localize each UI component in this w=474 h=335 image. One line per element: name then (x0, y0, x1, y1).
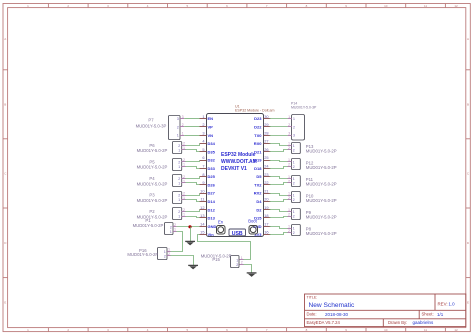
svg-text:1.0: 1.0 (449, 302, 456, 307)
svg-text:2: 2 (293, 181, 295, 185)
svg-text:12: 12 (454, 328, 458, 332)
svg-text:21: 21 (264, 188, 268, 193)
svg-text:2: 2 (288, 196, 290, 200)
wire U1 pin 30 to P14 pin 1 (270, 118, 288, 120)
connector P7 (136, 115, 185, 140)
svg-text:2: 2 (170, 225, 172, 229)
svg-text:3: 3 (202, 130, 204, 135)
svg-text:12: 12 (454, 4, 458, 8)
svg-text:MUD01Y-5.0-2P: MUD01Y-5.0-2P (137, 181, 168, 186)
svg-text:2: 2 (293, 198, 295, 202)
ESP32 module U1 (200, 114, 271, 238)
connector P6 (137, 142, 186, 154)
svg-text:MUD01Y-5.0-2P: MUD01Y-5.0-2P (306, 148, 337, 153)
svg-text:1: 1 (293, 177, 295, 181)
svg-text:MUD01Y-5.0-2P: MUD01Y-5.0-2P (127, 252, 158, 257)
wire P6 pin 1 to U1 pin 5 (186, 150, 200, 152)
svg-text:EN: EN (208, 116, 214, 121)
svg-text:2: 2 (183, 158, 185, 162)
svg-text:Drawn By:: Drawn By: (388, 320, 407, 325)
svg-text:2018-08-30: 2018-08-30 (325, 312, 349, 317)
wire U1 Vin pin 15 to P15 pin 1 (198, 235, 251, 260)
connector P8 (287, 224, 336, 236)
wire U1 pin 17 to P8 pin 1 (270, 227, 288, 229)
svg-text:1: 1 (164, 250, 166, 254)
wire U1 pin 18 to P9 pin 2 (270, 217, 288, 218)
svg-text:1: 1 (288, 175, 290, 179)
ground symbol 3 (247, 273, 257, 277)
svg-text:2: 2 (178, 194, 180, 198)
connector P5 (137, 158, 186, 170)
svg-text:3V3: 3V3 (254, 232, 262, 237)
svg-text:2: 2 (288, 123, 290, 127)
svg-text:1: 1 (293, 210, 295, 214)
svg-text:MUD01Y-5.0-2P: MUD01Y-5.0-2P (306, 215, 337, 220)
svg-text:D18: D18 (254, 166, 262, 171)
svg-text:EasyEDA V5.7.24: EasyEDA V5.7.24 (307, 320, 341, 325)
svg-text:2: 2 (293, 148, 295, 152)
svg-text:1: 1 (293, 227, 295, 231)
svg-text:2: 2 (177, 125, 179, 129)
svg-text:11: 11 (424, 4, 427, 8)
svg-text:3: 3 (293, 134, 295, 138)
svg-text:Vin: Vin (208, 232, 215, 237)
svg-text:19: 19 (264, 205, 268, 210)
wire P7 pin 1 to U1 pin 3 (184, 135, 199, 137)
svg-text:15: 15 (200, 230, 204, 235)
wire P3 pin 1 to U1 pin 11 (186, 200, 200, 202)
svg-text:1: 1 (178, 165, 180, 169)
svg-text:2: 2 (236, 263, 238, 267)
svg-text:E: E (467, 301, 469, 305)
svg-text:27: 27 (264, 139, 268, 144)
svg-text:1: 1 (177, 134, 179, 138)
svg-text:1: 1 (236, 258, 238, 262)
svg-text:2: 2 (293, 231, 295, 235)
svg-text:10: 10 (384, 328, 388, 332)
EN button (217, 219, 226, 234)
svg-text:A: A (4, 37, 6, 41)
svg-text:MUD01Y-5.0-2P: MUD01Y-5.0-2P (306, 165, 337, 170)
wire P4 pin 1 to U1 pin 9 (186, 183, 200, 185)
svg-text:7: 7 (202, 163, 204, 168)
wire U1 pin 16 to P8 pin 2 (270, 233, 288, 235)
svg-text:USB: USB (232, 231, 243, 237)
svg-text:1: 1 (293, 194, 295, 198)
svg-text:3: 3 (177, 117, 179, 121)
svg-text:2: 2 (293, 215, 295, 219)
svg-text:1: 1 (174, 228, 176, 232)
svg-text:22: 22 (264, 180, 268, 185)
wire U1 pin 23 to P11 pin 1 (270, 177, 288, 179)
svg-text:2: 2 (178, 210, 180, 214)
svg-text:P7: P7 (148, 118, 154, 123)
wire P16 pin 2 to ground (171, 256, 194, 266)
svg-text:1: 1 (178, 148, 180, 152)
ground symbol 2 (188, 265, 198, 269)
svg-text:MUD01Y-5.0-3P: MUD01Y-5.0-3P (291, 105, 317, 109)
svg-text:1: 1 (183, 179, 185, 183)
svg-text:D12: D12 (208, 207, 216, 212)
connector P12 (287, 158, 336, 170)
svg-text:3: 3 (288, 131, 290, 135)
svg-text:1: 1 (170, 230, 172, 234)
svg-text:2: 2 (178, 160, 180, 164)
svg-text:16: 16 (264, 230, 268, 235)
svg-text:1: 1 (288, 115, 290, 119)
svg-text:D32: D32 (208, 158, 216, 163)
svg-text:2: 2 (164, 254, 166, 258)
svg-text:D4: D4 (256, 199, 262, 204)
Boot button (248, 219, 257, 234)
svg-text:1: 1 (288, 142, 290, 146)
svg-text:11: 11 (200, 197, 204, 202)
svg-text:1: 1 (178, 215, 180, 219)
wire P2 pin 2 to U1 pin 12 (186, 210, 200, 212)
svg-text:23: 23 (264, 172, 268, 177)
wire junction down to ground (190, 227, 192, 241)
wire U1 pin 24 to P12 pin 2 (270, 167, 288, 169)
ground symbol 1 (185, 241, 195, 245)
svg-text:2: 2 (288, 179, 290, 183)
connector P13 (287, 142, 336, 154)
svg-text:D22: D22 (254, 124, 262, 129)
svg-text:1: 1 (183, 146, 185, 150)
connector P3 (137, 191, 186, 203)
svg-text:New Schematic: New Schematic (309, 302, 356, 309)
wire P6 pin 2 to U1 pin 4 (186, 144, 200, 146)
connector P14 (288, 102, 317, 140)
svg-text:29: 29 (264, 122, 268, 127)
svg-text:D14: D14 (208, 199, 216, 204)
svg-text:10: 10 (384, 4, 388, 8)
USB connector graphic (229, 229, 246, 237)
svg-text:13: 13 (200, 213, 204, 218)
wire U1 pin 21 to P10 pin 1 (270, 194, 288, 196)
svg-text:9: 9 (202, 180, 204, 185)
connector P4 (137, 175, 186, 187)
svg-text:2: 2 (288, 163, 290, 167)
svg-text:MUD01Y-5.0-2P: MUD01Y-5.0-2P (137, 165, 168, 170)
svg-text:2: 2 (293, 125, 295, 129)
svg-text:TITLE:: TITLE: (307, 296, 318, 300)
junction on GND net (188, 225, 191, 228)
wire U1 pin 28 to P14 pin 3 (270, 135, 288, 137)
svg-text:P15: P15 (212, 257, 220, 262)
svg-text:ESP32 Module: ESP32 Module (221, 152, 256, 158)
wire U1 pin 27 to P13 pin 1 (270, 144, 288, 146)
svg-text:1: 1 (288, 208, 290, 212)
svg-text:1: 1 (183, 163, 185, 167)
svg-text:1: 1 (288, 191, 290, 195)
wire P1 pin 2 to U1 GND pin 14 (177, 226, 200, 228)
svg-text:2: 2 (202, 122, 204, 127)
svg-text:6: 6 (202, 155, 204, 160)
wire P2 pin 1 to U1 pin 13 (186, 217, 200, 218)
svg-text:gaabrielns: gaabrielns (413, 320, 435, 325)
svg-text:1: 1 (202, 114, 204, 119)
svg-text:28: 28 (264, 130, 268, 135)
wire P5 pin 1 to U1 pin 7 (186, 167, 200, 169)
svg-text:26: 26 (264, 147, 268, 152)
wire U1 pin 25 to P12 pin 1 (270, 161, 288, 162)
svg-text:DEVKIT V1: DEVKIT V1 (221, 166, 247, 172)
svg-text:2: 2 (178, 177, 180, 181)
wire P5 pin 2 to U1 pin 6 (186, 161, 200, 162)
svg-text:D35: D35 (208, 149, 216, 154)
svg-text:1: 1 (178, 181, 180, 185)
svg-text:1: 1 (288, 224, 290, 228)
connector P9 (287, 208, 336, 220)
svg-text:2: 2 (183, 142, 185, 146)
svg-text:3: 3 (182, 115, 184, 119)
svg-text:B: B (4, 102, 6, 106)
connector P15 (201, 254, 244, 268)
svg-text:11: 11 (424, 328, 427, 332)
svg-text:REV:: REV: (438, 302, 448, 307)
svg-text:MUD01Y-5.0-2P: MUD01Y-5.0-2P (133, 223, 164, 228)
svg-text:1: 1 (183, 196, 185, 200)
svg-text:RX2: RX2 (254, 191, 263, 196)
svg-text:MUD01Y-5.0-2P: MUD01Y-5.0-2P (306, 198, 337, 203)
svg-text:5: 5 (202, 147, 204, 152)
svg-text:MUD01Y-5.0-2P: MUD01Y-5.0-2P (306, 181, 337, 186)
connector P10 (287, 191, 336, 203)
svg-text:2: 2 (293, 165, 295, 169)
svg-text:D33: D33 (208, 166, 216, 171)
connector P2 (137, 208, 186, 220)
svg-text:WWW.DOIT.AM: WWW.DOIT.AM (221, 159, 257, 165)
svg-text:12: 12 (200, 205, 204, 210)
svg-text:8: 8 (202, 172, 204, 177)
svg-text:VP: VP (208, 124, 214, 129)
connector P11 (287, 175, 336, 187)
svg-text:2: 2 (183, 191, 185, 195)
svg-text:1: 1 (178, 198, 180, 202)
connector P16 (127, 248, 170, 260)
svg-text:MUD01Y-5.0-2P: MUD01Y-5.0-2P (137, 214, 168, 219)
svg-text:2: 2 (174, 223, 176, 227)
wire U1 pin 20 to P10 pin 2 (270, 200, 288, 202)
svg-text:1: 1 (293, 117, 295, 121)
svg-text:2: 2 (182, 123, 184, 127)
svg-text:2: 2 (288, 146, 290, 150)
svg-text:2: 2 (183, 208, 185, 212)
svg-text:RX0: RX0 (254, 141, 263, 146)
svg-text:2: 2 (288, 212, 290, 216)
svg-text:E: E (4, 301, 6, 305)
svg-text:ESP32 Module - Doit.am: ESP32 Module - Doit.am (235, 108, 275, 112)
svg-text:2: 2 (183, 175, 185, 179)
wire U1 pin 29 to P14 pin 2 (270, 126, 288, 128)
wire P7 pin 3 to U1 pin 1 (184, 118, 199, 120)
svg-text:1: 1 (241, 256, 243, 260)
svg-text:17: 17 (264, 221, 268, 226)
svg-text:TX2: TX2 (254, 182, 262, 187)
svg-text:B: B (467, 102, 469, 106)
wire P7 pin 2 to U1 pin 2 (184, 126, 199, 128)
svg-text:1: 1 (168, 248, 170, 252)
svg-text:2: 2 (168, 252, 170, 256)
wire U1 pin 19 to P9 pin 1 (270, 210, 288, 212)
svg-text:1: 1 (293, 160, 295, 164)
svg-text:2: 2 (178, 144, 180, 148)
svg-text:1/1: 1/1 (437, 312, 444, 317)
svg-text:D23: D23 (254, 116, 262, 121)
svg-text:2: 2 (241, 261, 243, 265)
svg-text:2: 2 (288, 229, 290, 233)
wire U1 pin 26 to P13 pin 2 (270, 150, 288, 152)
svg-text:D27: D27 (208, 191, 216, 196)
svg-text:Boot: Boot (248, 219, 257, 224)
svg-text:VN: VN (208, 133, 214, 138)
svg-text:1: 1 (182, 131, 184, 135)
connector P1 (133, 218, 177, 235)
wire P15 pin 2 to ground (244, 265, 252, 273)
svg-text:D26: D26 (208, 182, 216, 187)
svg-text:En: En (218, 219, 224, 224)
svg-text:MUD01Y-5.0-3P: MUD01Y-5.0-3P (136, 123, 167, 128)
svg-text:25: 25 (264, 155, 268, 160)
svg-text:1: 1 (293, 144, 295, 148)
wire P3 pin 2 to U1 pin 10 (186, 194, 200, 196)
svg-text:1: 1 (288, 158, 290, 162)
svg-text:A: A (467, 37, 469, 41)
svg-text:Sheet:: Sheet: (422, 312, 434, 317)
svg-text:18: 18 (264, 213, 268, 218)
svg-text:Date:: Date: (307, 312, 317, 317)
svg-text:D2: D2 (256, 207, 262, 212)
svg-text:MUD01Y-5.0-2P: MUD01Y-5.0-2P (137, 148, 168, 153)
svg-text:D5: D5 (256, 174, 262, 179)
svg-text:1: 1 (183, 212, 185, 216)
U1 reference designator (235, 104, 275, 112)
svg-text:MUD01Y-5.0-2P: MUD01Y-5.0-2P (137, 198, 168, 203)
svg-text:D34: D34 (208, 141, 216, 146)
svg-text:TX0: TX0 (254, 133, 262, 138)
svg-text:MUD01Y-5.0-2P: MUD01Y-5.0-2P (306, 231, 337, 236)
svg-text:D13: D13 (208, 216, 216, 221)
wire P1 pin 1 to P16 pin 1 (171, 232, 183, 252)
wire P4 pin 2 to U1 pin 8 (186, 177, 200, 179)
svg-text:GND: GND (208, 224, 217, 229)
svg-text:D25: D25 (208, 174, 216, 179)
wire U1 pin 22 to P11 pin 2 (270, 183, 288, 185)
